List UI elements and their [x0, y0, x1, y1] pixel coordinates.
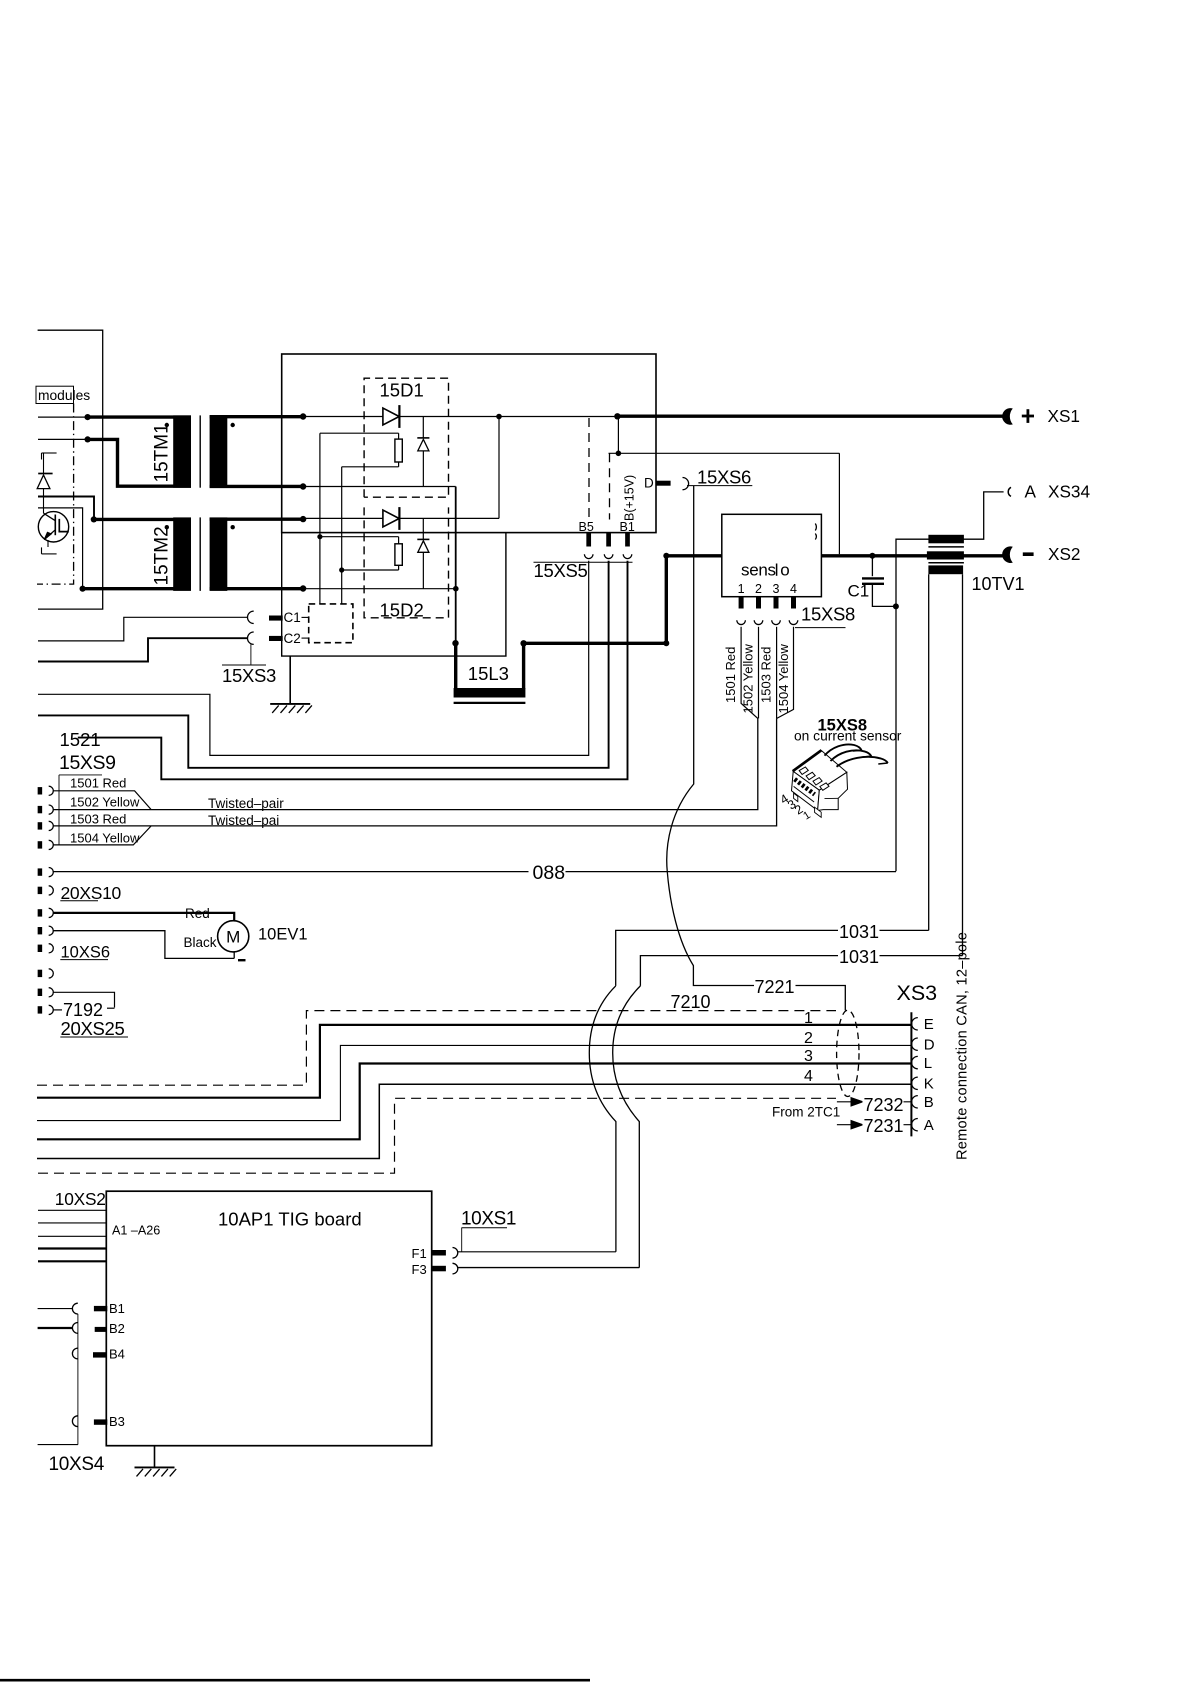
- svg-text:15TM2: 15TM2: [152, 526, 173, 585]
- svg-text:Twisted–pair: Twisted–pair: [208, 796, 284, 811]
- thick wire 15L3 to junction: [524, 642, 667, 645]
- svg-text:15TM1: 15TM1: [152, 423, 173, 482]
- wire 2: [37, 1045, 911, 1120]
- svg-text:10XS6: 10XS6: [61, 944, 111, 962]
- node: [616, 451, 622, 457]
- sensor pins 1-4: [739, 597, 744, 609]
- svg-text:A: A: [924, 1117, 934, 1134]
- wire 7232: [837, 1101, 911, 1103]
- wire 1031 lower: [880, 955, 963, 957]
- svg-text:E: E: [924, 1016, 934, 1033]
- node: [339, 567, 344, 572]
- svg-text:2: 2: [755, 582, 762, 596]
- wire 088 riser: [895, 606, 897, 871]
- IGBT transistor (module): [38, 512, 68, 542]
- svg-text:XS34: XS34: [1048, 481, 1090, 501]
- transformer 10TV1: [928, 535, 964, 544]
- twisted pair buses: [53, 718, 758, 809]
- svg-text:1031: 1031: [839, 947, 879, 967]
- node: [614, 413, 620, 419]
- svg-text:1521: 1521: [60, 729, 101, 750]
- thick wire junction to sensor: [666, 554, 722, 557]
- svg-text:1504 Yellow: 1504 Yellow: [70, 830, 140, 845]
- rectifier output drop: [455, 487, 457, 644]
- svg-text:C1: C1: [284, 610, 301, 625]
- svg-text:10AP1 TIG board: 10AP1 TIG board: [218, 1209, 362, 1230]
- svg-text:4: 4: [790, 582, 797, 596]
- svg-text:C2: C2: [284, 631, 301, 646]
- svg-text:B3: B3: [109, 1414, 125, 1429]
- cable ellipse: [837, 1010, 859, 1096]
- pin B2: [72, 1323, 77, 1334]
- node: [317, 534, 322, 539]
- svg-text:XS1: XS1: [1048, 406, 1081, 426]
- wire 7192: [53, 992, 115, 1007]
- svg-text:15XS9: 15XS9: [59, 752, 116, 774]
- svg-text:on current sensor: on current sensor: [794, 729, 902, 744]
- wire 088: [53, 871, 529, 873]
- svg-text:F1: F1: [412, 1246, 427, 1261]
- aux rail to right column: [609, 452, 840, 454]
- svg-text:1: 1: [801, 809, 813, 822]
- svg-text:C1: C1: [848, 582, 870, 601]
- label flags: [58, 775, 60, 845]
- svg-text:1: 1: [804, 1010, 813, 1027]
- connector 20XS10: [38, 868, 43, 875]
- svg-text:sens: sens: [741, 561, 776, 580]
- wire 1: [37, 1025, 911, 1098]
- inductor 15L3: [454, 643, 457, 689]
- wire loops down to TIG board: [589, 986, 616, 1252]
- svg-text:XS2: XS2: [1048, 544, 1081, 564]
- wire: [341, 467, 343, 604]
- wire to 15TM2 primary top: [38, 497, 94, 520]
- transformer 15TM2: [173, 517, 191, 591]
- svg-text:K: K: [924, 1076, 934, 1093]
- node: [496, 414, 502, 420]
- svg-text:20XS25: 20XS25: [61, 1018, 125, 1039]
- connector 15XS8 arcs: [737, 620, 746, 624]
- connector 15XS3 pin C1: [269, 616, 283, 621]
- diode group 15D1 dashed box: [364, 378, 448, 497]
- motor 10EV1: [218, 921, 249, 952]
- svg-text:10TV1: 10TV1: [972, 574, 1025, 594]
- node: [85, 436, 91, 442]
- snubber R 15D1: [320, 432, 399, 434]
- node: [520, 640, 526, 646]
- connector 15XS5: [584, 554, 593, 558]
- + output thick wire to XS1: [617, 415, 1004, 418]
- node: [85, 414, 91, 420]
- node: [453, 586, 459, 592]
- pin B5: [586, 533, 591, 547]
- power module box: [282, 354, 656, 533]
- terminal XS1: [1002, 408, 1013, 425]
- wire Bmid branch: [38, 561, 609, 768]
- svg-text:o: o: [780, 561, 789, 580]
- wire to 15TM1 primary top: [38, 416, 88, 418]
- svg-text:B5: B5: [579, 520, 594, 534]
- diode 15D2: [383, 510, 399, 527]
- node: [452, 640, 458, 646]
- 15TM1 lower rail wire: [303, 486, 456, 488]
- pin B1: [72, 1303, 77, 1314]
- svg-text:B1: B1: [109, 1301, 125, 1316]
- svg-text:1031: 1031: [839, 922, 879, 942]
- node: [80, 586, 86, 592]
- wire C1: [38, 617, 248, 641]
- wires 1501-1504 with labels: [741, 627, 758, 719]
- connector 15XS3 pin C2: [269, 636, 283, 641]
- svg-text:15XS3: 15XS3: [222, 665, 276, 686]
- capacitor C1: [871, 556, 873, 576]
- svg-text:M: M: [226, 928, 240, 947]
- freewheel diode (module): [42, 452, 57, 454]
- thick riser: [665, 556, 668, 644]
- svg-text:Twisted–pai: Twisted–pai: [208, 813, 279, 828]
- node: [893, 603, 899, 609]
- svg-text:7231: 7231: [864, 1116, 904, 1136]
- terminal XS2: [1002, 546, 1013, 563]
- connector 10XS6: [38, 909, 43, 916]
- wire: [319, 433, 321, 604]
- svg-text:1501 Red: 1501 Red: [70, 776, 126, 791]
- svg-text:L: L: [924, 1055, 932, 1072]
- svg-text:Red: Red: [185, 906, 210, 921]
- terminal XS34: [1008, 487, 1011, 496]
- svg-text:1501 Red: 1501 Red: [723, 647, 738, 703]
- svg-text:3: 3: [804, 1048, 813, 1065]
- svg-text:3: 3: [773, 582, 780, 596]
- svg-text:B2: B2: [109, 1321, 125, 1336]
- svg-text:modules: modules: [38, 388, 90, 403]
- svg-text:D: D: [924, 1036, 935, 1053]
- wire Red: [53, 913, 234, 921]
- svg-text:10EV1: 10EV1: [258, 926, 308, 944]
- svg-text:15D1: 15D1: [380, 380, 424, 401]
- svg-text:15XS8: 15XS8: [801, 603, 855, 624]
- 10TV1 legs: [928, 574, 930, 930]
- transformer 15TM1: [173, 415, 191, 487]
- wire to 15TM1 primary bottom: [38, 438, 88, 440]
- svg-text:1502 Yellow: 1502 Yellow: [70, 794, 140, 809]
- node: [91, 516, 97, 522]
- wire to 15TM2 primary bottom: [38, 508, 83, 589]
- pin D with connector 15XS6: [656, 481, 671, 486]
- snubber R 15D2: [320, 536, 399, 538]
- top rail wire: [303, 416, 499, 418]
- screen dashed 7210: [37, 1011, 836, 1086]
- dashed module-box boundary: [37, 404, 74, 585]
- svg-text:Black: Black: [184, 935, 217, 950]
- svg-text:B: B: [924, 1094, 934, 1111]
- wire 3: [37, 1064, 911, 1140]
- 15TM2 upper rail wire: [303, 517, 499, 519]
- wire 15XS6 / 7221 with slack loop: [667, 486, 754, 986]
- svg-text:15D2: 15D2: [380, 600, 424, 621]
- TVS diode 15D2: [422, 518, 424, 539]
- minus output thick wire: [821, 554, 1004, 557]
- wire 7231: [837, 1124, 911, 1126]
- TVS diode 15D1: [422, 417, 424, 438]
- wire 1031 upper: [880, 929, 929, 931]
- svg-text:2: 2: [804, 1030, 813, 1047]
- svg-text:1502 Yellow: 1502 Yellow: [741, 643, 756, 713]
- wire 1504: [53, 826, 151, 845]
- node: [663, 640, 669, 646]
- label 15XS3: [250, 644, 252, 665]
- svg-text:1504 Yellow: 1504 Yellow: [776, 643, 791, 713]
- svg-text:F3: F3: [412, 1262, 427, 1277]
- connector 20XS25: [38, 970, 43, 977]
- pin Bmid: [606, 533, 611, 547]
- pin B(+15V) dashes: [588, 418, 590, 517]
- diode group 15D2 dashed box: [364, 507, 448, 617]
- wire C2: [38, 638, 248, 661]
- wire bracket top-left: [38, 330, 103, 609]
- svg-text:10XS1: 10XS1: [461, 1208, 516, 1229]
- wire 1501: [53, 791, 151, 810]
- 10AP1 TIG board: [106, 1191, 431, 1446]
- svg-text:20XS10: 20XS10: [61, 883, 122, 903]
- board ground: [154, 1446, 156, 1468]
- svg-text:15L3: 15L3: [468, 663, 509, 684]
- bottom rule: [0, 1679, 590, 1682]
- svg-text:A1 –A26: A1 –A26: [112, 1224, 160, 1238]
- pin B4: [72, 1348, 77, 1359]
- connector 10XS4 chain: [77, 1314, 79, 1445]
- wire 4: [37, 1084, 911, 1158]
- svg-text:1503 Red: 1503 Red: [758, 647, 773, 703]
- svg-text:15XS6: 15XS6: [697, 467, 751, 488]
- svg-text:D: D: [644, 476, 654, 491]
- svg-text:088: 088: [533, 862, 566, 884]
- svg-text:7221: 7221: [755, 977, 795, 997]
- svg-text:XS3: XS3: [897, 981, 938, 1005]
- svg-text:7232: 7232: [864, 1095, 904, 1115]
- svg-text:A: A: [1025, 482, 1037, 502]
- svg-text:1503 Red: 1503 Red: [70, 811, 126, 826]
- snubber dashed box at 15XS3: [309, 604, 353, 643]
- svg-text:B(+15V): B(+15V): [623, 475, 637, 521]
- svg-text:10XS4: 10XS4: [49, 1454, 105, 1475]
- 15TM2 lower rail wire: [303, 588, 456, 590]
- pin B3: [72, 1416, 77, 1427]
- diode 15D1: [383, 408, 399, 425]
- svg-text:1: 1: [738, 582, 745, 596]
- svg-text:15XS5: 15XS5: [534, 560, 588, 581]
- node: [663, 553, 669, 559]
- svg-text:B4: B4: [109, 1347, 125, 1362]
- pin B1: [625, 533, 630, 547]
- svg-text:4: 4: [804, 1068, 813, 1085]
- screen dashed lower: [38, 1098, 836, 1173]
- wire sensor-top rail: [896, 492, 1004, 607]
- svg-text:7210: 7210: [671, 992, 711, 1012]
- wire B5 branch: [38, 561, 589, 756]
- wire 1521 to B1: [78, 561, 628, 780]
- node: [869, 553, 875, 559]
- IGBT modules label: [36, 386, 74, 403]
- svg-text:From 2TC1: From 2TC1: [772, 1105, 840, 1120]
- svg-text:Remote connection CAN, 12–pole: Remote connection CAN, 12–pole: [955, 932, 971, 1160]
- ground: [289, 656, 291, 704]
- svg-text:10XS2: 10XS2: [55, 1189, 106, 1209]
- box lower pocket: [282, 533, 506, 657]
- wire Black: [53, 931, 234, 959]
- current sensor box: [722, 514, 822, 596]
